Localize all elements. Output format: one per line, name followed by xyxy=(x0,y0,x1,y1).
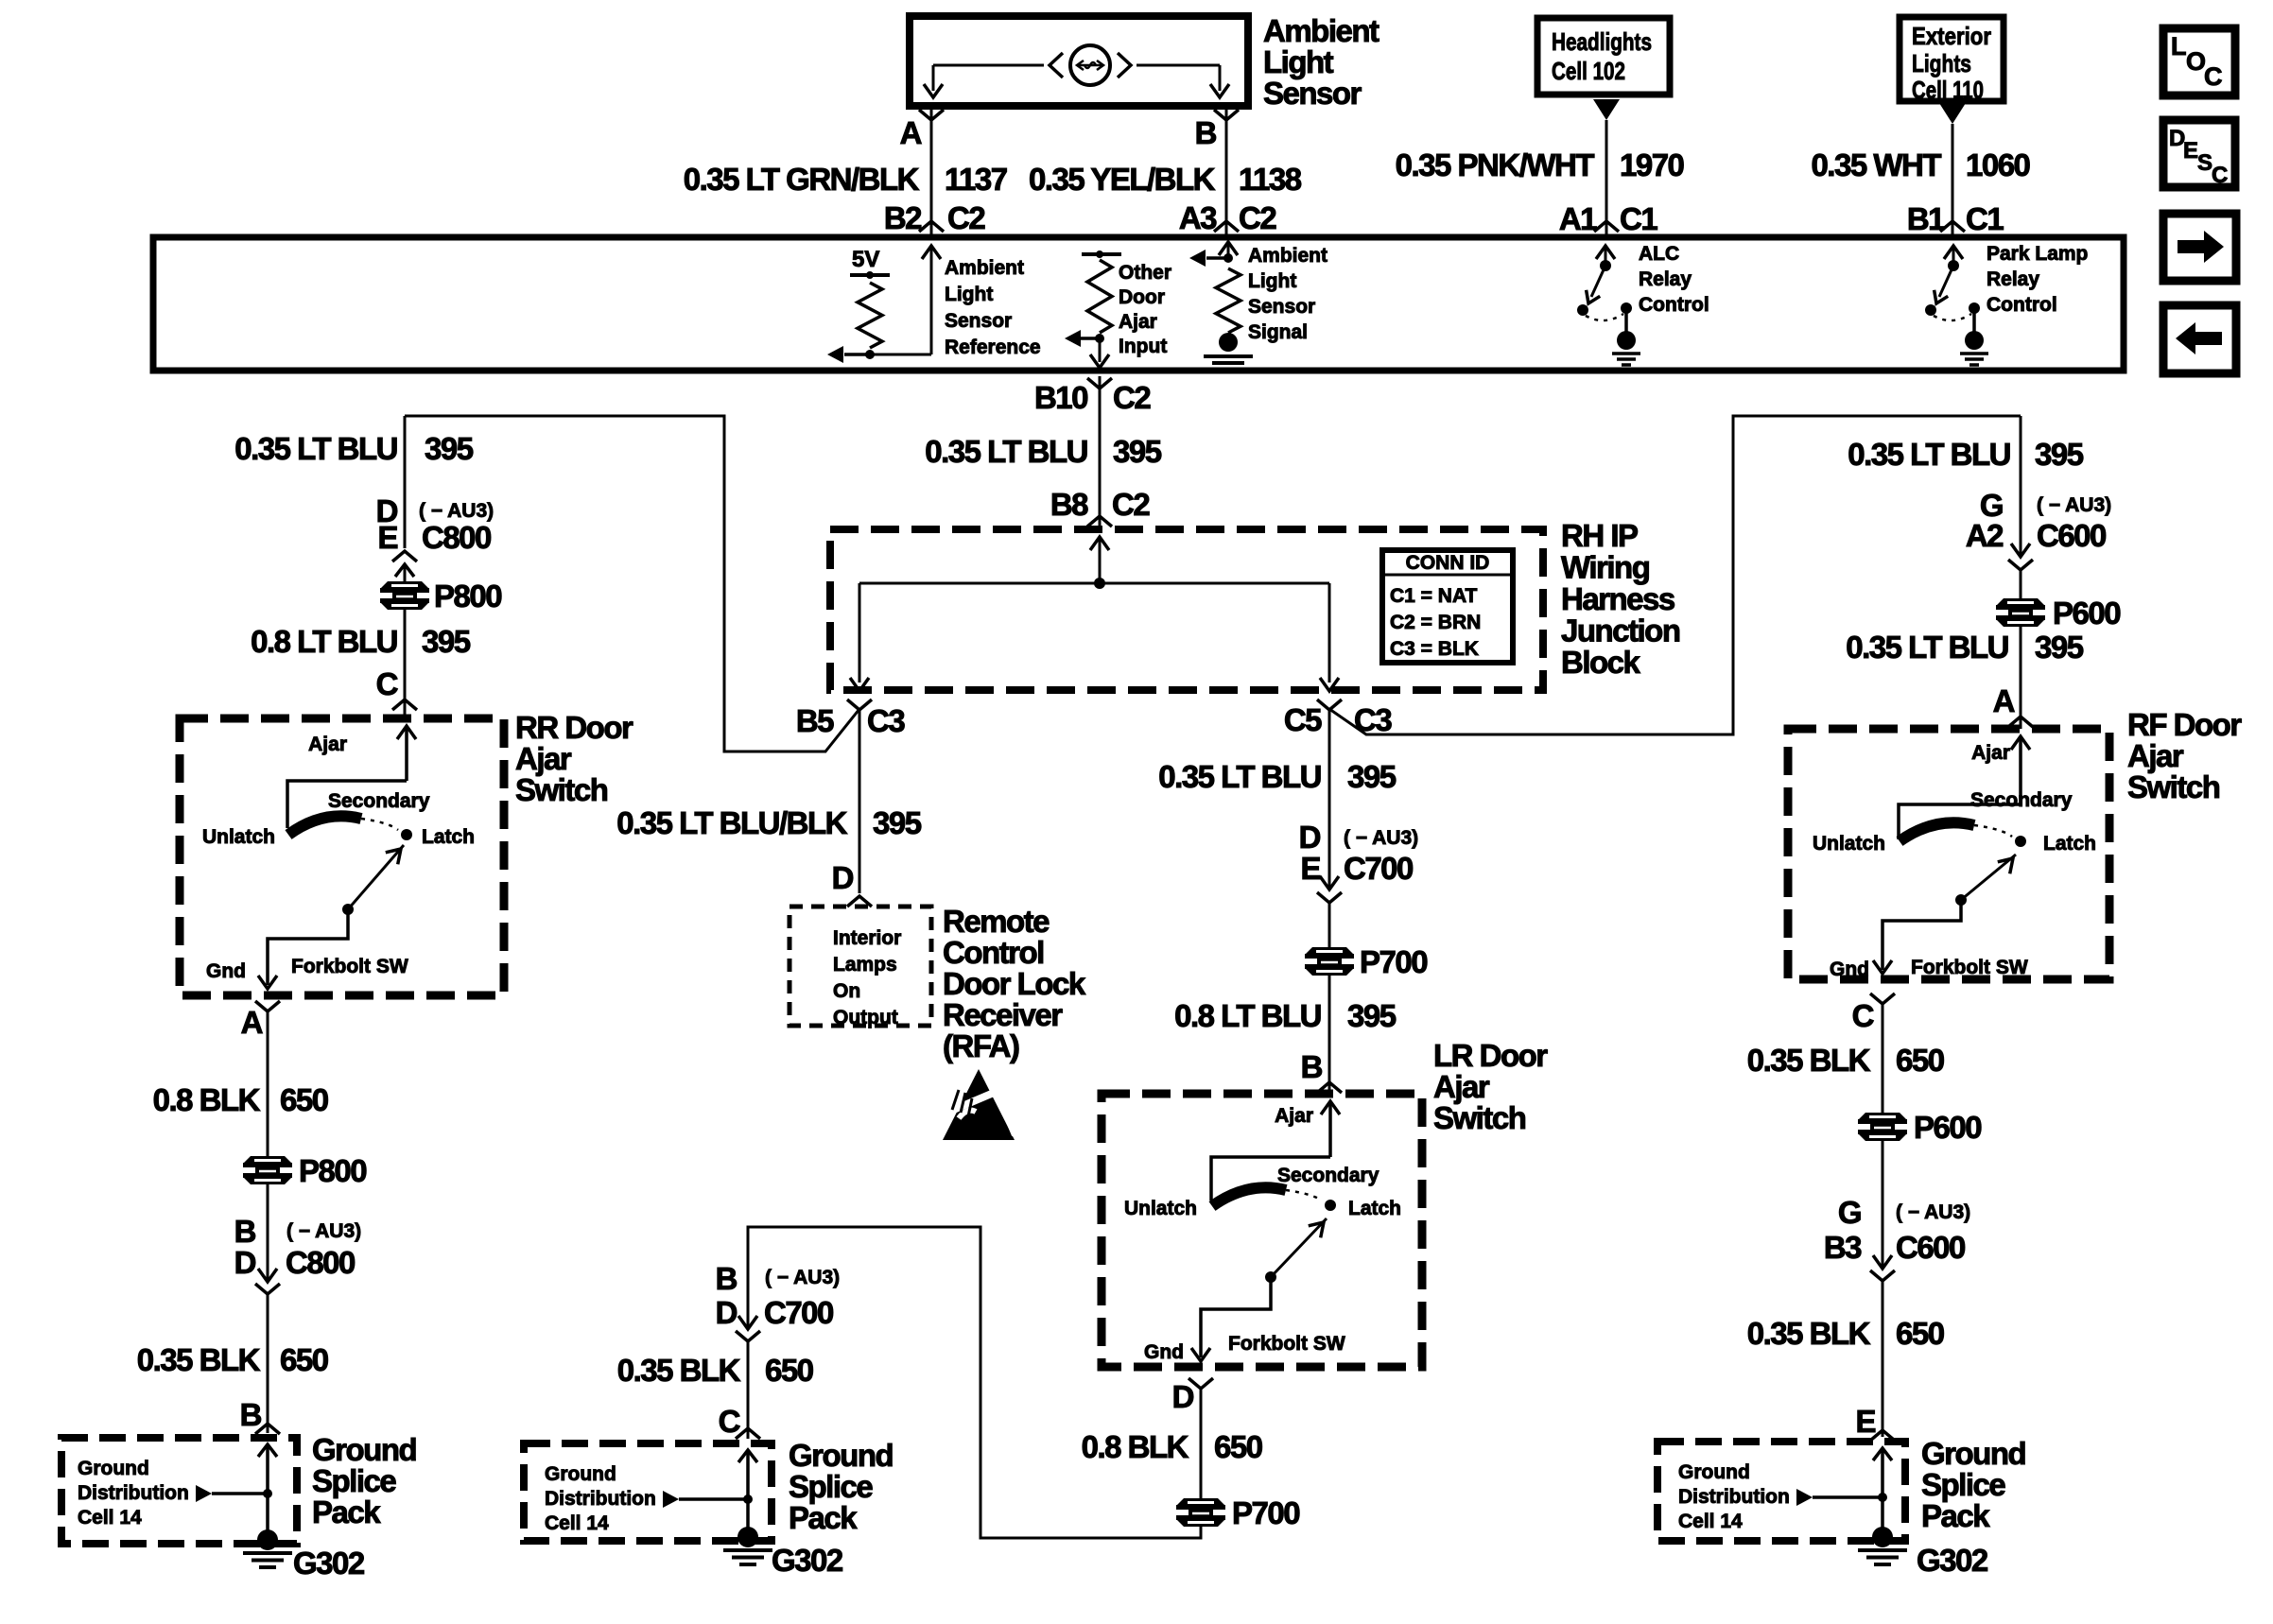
svg-text:RR Door: RR Door xyxy=(515,710,633,745)
svg-text:Relay: Relay xyxy=(1987,268,2039,290)
svg-text:Secondary: Secondary xyxy=(1970,789,2073,811)
svg-text:B: B xyxy=(1301,1049,1323,1084)
connector fork at BCM B1 xyxy=(1940,221,1965,232)
svg-text:A: A xyxy=(241,1005,263,1040)
right splice node xyxy=(1878,1493,1887,1502)
svg-text:B3: B3 xyxy=(1824,1230,1862,1265)
svg-text:G302: G302 xyxy=(1917,1543,1988,1578)
svg-text:1060: 1060 xyxy=(1966,147,2030,182)
svg-text:395: 395 xyxy=(873,805,922,840)
wire 1138 xyxy=(1225,106,1228,237)
grommet P800 xyxy=(381,581,428,588)
svg-text:RH IP: RH IP xyxy=(1561,518,1638,553)
LOC reference box xyxy=(2163,28,2235,95)
svg-text:0.35 LT GRN/BLK: 0.35 LT GRN/BLK xyxy=(684,162,920,197)
svg-text:0.8 BLK: 0.8 BLK xyxy=(153,1082,261,1117)
body control module box xyxy=(153,237,2124,371)
wire B8 into junction block with arrow xyxy=(1090,537,1109,550)
LR secondary contact arm (thick arc) xyxy=(1212,1187,1286,1206)
svg-text:0.35 BLK: 0.35 BLK xyxy=(1747,1316,1871,1351)
svg-text:C5: C5 xyxy=(1284,702,1322,737)
connector fork below RF door xyxy=(1870,993,1895,1004)
svg-text:C: C xyxy=(2204,62,2223,91)
connector fork at sensor pin B xyxy=(1214,110,1239,120)
svg-text:Relay: Relay xyxy=(1639,268,1692,290)
svg-text:Unlatch: Unlatch xyxy=(1813,833,1885,855)
svg-text:Unlatch: Unlatch xyxy=(1124,1198,1197,1219)
svg-text:650: 650 xyxy=(1214,1429,1262,1464)
svg-text:Pack: Pack xyxy=(312,1494,381,1529)
svg-text:C700: C700 xyxy=(1344,851,1413,886)
svg-text:LR Door: LR Door xyxy=(1433,1038,1548,1073)
arrow to internal circuit (signal) xyxy=(1206,256,1228,260)
svg-text:0.35 BLK: 0.35 BLK xyxy=(617,1353,741,1388)
svg-text:RF Door: RF Door xyxy=(2127,707,2242,742)
RR travel arc to latch xyxy=(361,819,398,830)
svg-text:0.35 LT BLU: 0.35 LT BLU xyxy=(1846,630,2008,665)
left wire into pack with arrow xyxy=(258,1444,277,1457)
next page arrow box xyxy=(2163,214,2236,281)
resistor R3 (ambient light sensor signal) xyxy=(1216,268,1241,333)
grommet P700 xyxy=(1306,947,1353,954)
svg-text:Secondary: Secondary xyxy=(1277,1165,1379,1186)
svg-text:A: A xyxy=(1993,683,2015,718)
svg-text:L: L xyxy=(2171,32,2187,60)
left splice node xyxy=(263,1489,272,1498)
svg-text:Input: Input xyxy=(1119,336,1167,357)
wire to 5V resistor xyxy=(870,354,931,356)
svg-text:A2: A2 xyxy=(1966,518,2004,553)
connector fork at BCM A3 xyxy=(1214,221,1239,232)
svg-text:E: E xyxy=(2183,138,2198,164)
right wire into pack with arrow xyxy=(1873,1448,1892,1460)
RF latch contact xyxy=(2015,836,2026,847)
wire 395 to RF door xyxy=(2020,416,2022,557)
svg-text:Gnd: Gnd xyxy=(206,960,246,982)
connector fork at splice pack xyxy=(736,1428,760,1439)
svg-text:C2 = BRN: C2 = BRN xyxy=(1390,612,1481,633)
svg-text:Pack: Pack xyxy=(789,1500,858,1535)
RF secondary contact arm (thick arc) xyxy=(1900,822,1974,841)
svg-text:395: 395 xyxy=(2035,630,2084,665)
svg-text:C600: C600 xyxy=(2037,518,2106,553)
svg-text:Light: Light xyxy=(945,284,993,305)
svg-text:Cell 110: Cell 110 xyxy=(1912,76,1984,104)
svg-text:0.35 BLK: 0.35 BLK xyxy=(137,1342,261,1377)
wire 0.35 BLK 650 xyxy=(1882,1004,1884,1115)
exterior lights cell 110 box xyxy=(1900,17,2004,101)
svg-text:395: 395 xyxy=(1347,759,1397,794)
park lamp relay contact to ground xyxy=(1972,308,1976,333)
internal wire to B5 with arrow xyxy=(859,583,861,682)
svg-text:P600: P600 xyxy=(1914,1110,1981,1145)
headlights cell 102 box xyxy=(1537,18,1670,95)
DESC reference box xyxy=(2163,120,2235,187)
svg-text:Ajar: Ajar xyxy=(515,741,572,776)
svg-text:Sensor: Sensor xyxy=(1263,76,1362,111)
wire 0.8 LT BLU xyxy=(1328,973,1331,1094)
wire branch C5 to RF door chain xyxy=(1329,416,2021,734)
wire 0.35 BLK 650 lower xyxy=(1882,1281,1884,1437)
svg-text:Control: Control xyxy=(1639,294,1709,316)
node below resistor R2 xyxy=(1095,334,1104,343)
svg-text:5V: 5V xyxy=(852,247,879,272)
svg-text:B1: B1 xyxy=(1907,201,1945,236)
wire routing from P700 to C700 xyxy=(748,1227,1201,1538)
connector fork at RF door A xyxy=(2008,717,2033,727)
svg-text:G302: G302 xyxy=(293,1546,365,1581)
svg-text:Ambient: Ambient xyxy=(1263,13,1379,48)
svg-text:C3 = BLK: C3 = BLK xyxy=(1390,638,1479,660)
svg-text:E: E xyxy=(1300,851,1320,886)
svg-text:C: C xyxy=(2212,163,2228,188)
svg-text:0.8 LT BLU: 0.8 LT BLU xyxy=(1174,998,1321,1033)
svg-text:0.8 BLK: 0.8 BLK xyxy=(1082,1429,1189,1464)
RR gnd wire jog xyxy=(268,909,348,985)
svg-text:1970: 1970 xyxy=(1620,147,1684,182)
svg-text:( − AU3): ( − AU3) xyxy=(1344,827,1418,849)
LR gnd wire jog xyxy=(1201,1277,1271,1357)
svg-text:Sensor: Sensor xyxy=(1248,296,1315,318)
LR travel arc to latch xyxy=(1286,1190,1322,1201)
wire 0.35 BLK 650 xyxy=(267,1294,269,1433)
svg-text:D: D xyxy=(832,860,854,895)
svg-text:C3: C3 xyxy=(867,703,905,738)
connector fork below RR door xyxy=(255,1001,280,1011)
ambient light sensor photocell symbol xyxy=(933,45,1220,85)
svg-text:Secondary: Secondary xyxy=(328,790,430,812)
svg-text:B10: B10 xyxy=(1034,380,1087,415)
svg-text:Interior: Interior xyxy=(833,927,901,949)
RR gnd exit arrow xyxy=(258,976,277,989)
grommet P800 (lower) xyxy=(244,1156,291,1163)
svg-text:B: B xyxy=(716,1261,737,1296)
svg-text:650: 650 xyxy=(1896,1043,1944,1078)
center ground distribution branch arrow xyxy=(663,1491,679,1508)
other door ajar pull-up bar xyxy=(1082,252,1121,256)
svg-text:P700: P700 xyxy=(1232,1495,1299,1530)
svg-text:Reference: Reference xyxy=(945,337,1041,358)
svg-text:0.35 LT BLU: 0.35 LT BLU xyxy=(234,431,397,466)
svg-text:B: B xyxy=(240,1397,262,1432)
wire E to P700 xyxy=(1328,903,1331,950)
connector fork at RFA D xyxy=(847,896,872,907)
svg-text:0.35 LT BLU: 0.35 LT BLU xyxy=(1158,759,1321,794)
grommet P700 (lower) xyxy=(1177,1498,1224,1505)
svg-text:Distribution: Distribution xyxy=(545,1488,656,1510)
svg-text:Latch: Latch xyxy=(2043,833,2096,855)
svg-text:0.35 WHT: 0.35 WHT xyxy=(1811,147,1941,182)
svg-text:Ground: Ground xyxy=(545,1463,616,1485)
wire to C600 xyxy=(1882,1138,1884,1267)
svg-text:P600: P600 xyxy=(2053,596,2120,631)
svg-text:D: D xyxy=(1172,1379,1194,1414)
svg-text:Ground: Ground xyxy=(1678,1461,1750,1483)
svg-text:On: On xyxy=(833,980,860,1002)
svg-text:1138: 1138 xyxy=(1239,162,1302,197)
svg-text:( − AU3): ( − AU3) xyxy=(419,500,494,522)
internal wire to C5 with arrow xyxy=(1328,583,1331,682)
svg-text:P700: P700 xyxy=(1360,944,1427,979)
svg-text:Ambient: Ambient xyxy=(1248,245,1327,267)
svg-text:G302: G302 xyxy=(772,1543,843,1578)
RR door ajar switch box xyxy=(180,718,504,995)
connector fork at splice pack xyxy=(255,1424,280,1434)
RF travel arc to latch xyxy=(1974,825,2012,837)
svg-text:S: S xyxy=(2197,150,2212,176)
ALC relay switch arm xyxy=(1591,266,1605,297)
svg-text:P800: P800 xyxy=(434,579,501,613)
svg-text:C3: C3 xyxy=(1354,702,1392,737)
internal ground for park lamp relay xyxy=(1965,331,1984,350)
svg-text:Output: Output xyxy=(833,1007,898,1028)
wire to C800 xyxy=(267,1182,269,1282)
wire B5 to RFA receiver xyxy=(859,709,861,893)
wire 0.8 LT BLU xyxy=(404,607,407,718)
LR latch contact xyxy=(1325,1200,1336,1211)
svg-text:Control: Control xyxy=(943,935,1044,970)
wire A3 into BCM with arrow xyxy=(1219,242,1238,255)
svg-text:0.35 YEL/BLK: 0.35 YEL/BLK xyxy=(1029,162,1216,197)
svg-text:0.35 LT BLU: 0.35 LT BLU xyxy=(1848,437,2010,472)
svg-text:C1: C1 xyxy=(1620,201,1657,236)
ambient light sensor U1 box xyxy=(910,16,1248,106)
center splice node xyxy=(743,1494,753,1504)
connector C700 forks (down) xyxy=(738,1316,757,1329)
wire 1137 xyxy=(930,106,933,237)
svg-text:Ground: Ground xyxy=(312,1432,416,1467)
grommet P600 xyxy=(1997,598,2044,605)
wire branch B5 to RR door chain xyxy=(405,416,859,752)
wire 1970 xyxy=(1605,120,1608,237)
RF forkbolt pivot xyxy=(1955,894,1967,906)
svg-text:Ambient: Ambient xyxy=(945,257,1024,279)
svg-text:650: 650 xyxy=(1896,1316,1944,1351)
svg-text:C2: C2 xyxy=(1113,380,1151,415)
svg-text:0.35 LT BLU: 0.35 LT BLU xyxy=(925,434,1087,469)
svg-text:P800: P800 xyxy=(299,1153,366,1188)
svg-text:G: G xyxy=(1838,1195,1861,1230)
svg-text:0.35 LT BLU/BLK: 0.35 LT BLU/BLK xyxy=(616,805,847,840)
connector fork at BCM B2 xyxy=(919,221,944,232)
wire E to P800 xyxy=(404,564,407,584)
wire B2 into BCM with arrow xyxy=(922,246,941,259)
wire 0.35 LT BLU xyxy=(2020,624,2022,729)
right ground distribution branch arrow xyxy=(1796,1489,1813,1506)
left ground splice pack box xyxy=(61,1438,297,1544)
svg-text:0.35 PNK/WHT: 0.35 PNK/WHT xyxy=(1396,147,1595,182)
svg-text:Distribution: Distribution xyxy=(1678,1486,1790,1508)
connector fork at C5 xyxy=(1317,700,1342,710)
svg-text:Lamps: Lamps xyxy=(833,954,897,976)
RR forkbolt pivot xyxy=(342,904,354,915)
connector C800 forks (down) xyxy=(258,1269,277,1282)
ALC relay contact xyxy=(1621,302,1632,314)
ALC relay travel arc xyxy=(1586,314,1623,320)
svg-text:A: A xyxy=(900,115,922,150)
svg-text:Latch: Latch xyxy=(1348,1198,1401,1219)
svg-text:Pack: Pack xyxy=(1921,1498,1990,1533)
triangle arrow from headlights box xyxy=(1593,99,1620,120)
svg-text:Gnd: Gnd xyxy=(1144,1341,1184,1363)
svg-text:Ajar: Ajar xyxy=(1971,742,2010,764)
svg-text:Ground: Ground xyxy=(789,1438,893,1473)
svg-text:A1: A1 xyxy=(1559,201,1597,236)
svg-text:C2: C2 xyxy=(1239,200,1276,235)
connector fork at BCM B10 xyxy=(1087,378,1112,389)
svg-text:B5: B5 xyxy=(796,703,834,738)
svg-text:650: 650 xyxy=(280,1082,328,1117)
svg-text:1137: 1137 xyxy=(945,162,1007,197)
connector C600 forks (down) xyxy=(2011,544,2030,557)
LR forkbolt switch arm xyxy=(1271,1218,1327,1277)
wire 0.8 BLK 650 xyxy=(267,1011,269,1159)
svg-text:Park Lamp: Park Lamp xyxy=(1987,243,2088,265)
connector C600 forks (down) xyxy=(1873,1255,1892,1269)
park lamp relay contact xyxy=(1969,302,1980,314)
left ground G302 xyxy=(257,1529,278,1550)
svg-text:B8: B8 xyxy=(1050,487,1088,522)
wire to B10 with arrow xyxy=(1099,338,1102,362)
LR gnd exit arrow xyxy=(1191,1348,1210,1361)
resistor R1 (ambient light sensor reference pull-up) xyxy=(858,283,882,348)
svg-text:Light: Light xyxy=(1263,44,1334,79)
svg-text:C800: C800 xyxy=(422,520,491,555)
svg-text:Other: Other xyxy=(1119,262,1171,284)
center ground G302 xyxy=(737,1527,758,1547)
RF gnd wire jog xyxy=(1883,900,1961,970)
park lamp relay switch arm xyxy=(1939,266,1953,297)
svg-text:Ground: Ground xyxy=(1921,1436,2025,1471)
svg-text:Remote: Remote xyxy=(943,904,1050,939)
RR forkbolt switch arm xyxy=(348,845,404,909)
svg-text:Signal: Signal xyxy=(1248,321,1308,343)
svg-text:Ajar: Ajar xyxy=(1275,1105,1313,1127)
svg-text:Ajar: Ajar xyxy=(308,734,347,755)
connector C800 forks xyxy=(392,551,417,561)
internal ground for R3 xyxy=(1219,333,1238,352)
svg-text:Control: Control xyxy=(1987,294,2057,316)
svg-text:( − AU3): ( − AU3) xyxy=(1896,1201,1970,1223)
wire 395 to RR door xyxy=(404,416,407,548)
svg-text:Distribution: Distribution xyxy=(78,1482,189,1504)
park lamp relay switch pivot xyxy=(1925,304,1936,316)
svg-text:C1 = NAT: C1 = NAT xyxy=(1390,585,1478,607)
svg-text:395: 395 xyxy=(425,431,474,466)
connector fork at splice pack xyxy=(1870,1430,1895,1441)
RFA interior lamps on output box (dashed) xyxy=(789,907,931,1026)
svg-text:Junction: Junction xyxy=(1561,613,1680,648)
svg-text:Cell 102: Cell 102 xyxy=(1552,57,1625,85)
svg-text:Splice: Splice xyxy=(312,1463,396,1498)
svg-text:Ajar: Ajar xyxy=(2127,738,2184,773)
svg-text:Exterior: Exterior xyxy=(1912,22,1991,50)
node at signal resistor top xyxy=(1223,253,1233,263)
RR latch contact xyxy=(401,829,412,840)
svg-text:Cell 14: Cell 14 xyxy=(545,1512,609,1534)
svg-text:Lights: Lights xyxy=(1912,49,1971,78)
svg-text:Switch: Switch xyxy=(1433,1100,1526,1135)
connector fork at junction block B8 xyxy=(1087,516,1112,527)
RF forkbolt switch arm xyxy=(1961,855,2016,900)
wire 0.8 BLK 650 xyxy=(1200,1389,1203,1501)
RR secondary contact arm (thick arc) xyxy=(288,816,361,835)
wire 395 from B10 xyxy=(1099,376,1102,529)
LR ajar input arrow xyxy=(1321,1101,1340,1114)
right ground splice pack box xyxy=(1657,1442,1905,1541)
wire 0.35 BLK 650 xyxy=(747,1341,750,1439)
svg-text:B: B xyxy=(1195,115,1217,150)
svg-text:B: B xyxy=(234,1214,256,1249)
svg-text:C: C xyxy=(719,1404,740,1439)
svg-text:Wiring: Wiring xyxy=(1561,550,1649,585)
RH IP wiring harness junction block (dashed) xyxy=(830,529,1543,690)
svg-text:Unlatch: Unlatch xyxy=(202,826,275,848)
svg-text:(RFA): (RFA) xyxy=(943,1028,1019,1063)
svg-text:B2: B2 xyxy=(884,200,922,235)
svg-text:Door Lock: Door Lock xyxy=(943,966,1086,1001)
LR door ajar switch box xyxy=(1102,1094,1422,1367)
svg-text:Switch: Switch xyxy=(515,772,608,807)
svg-text:0.8 LT BLU: 0.8 LT BLU xyxy=(251,624,397,659)
ALC relay contact to ground xyxy=(1624,308,1628,333)
5V supply bar xyxy=(850,273,890,277)
node at resistor bottom xyxy=(865,350,875,359)
svg-text:650: 650 xyxy=(765,1353,813,1388)
svg-text:Sensor: Sensor xyxy=(945,310,1012,332)
svg-text:0.35 BLK: 0.35 BLK xyxy=(1747,1043,1871,1078)
connector fork at B5 xyxy=(847,700,872,710)
junction block internal bus xyxy=(859,582,1329,585)
svg-text:Ajar: Ajar xyxy=(1433,1069,1490,1104)
svg-text:Forkbolt SW: Forkbolt SW xyxy=(1911,957,2028,978)
wire C5 to LR door xyxy=(1328,709,1331,890)
wire 1060 xyxy=(1952,124,1954,237)
svg-text:Ajar: Ajar xyxy=(1119,311,1157,333)
svg-text:395: 395 xyxy=(1347,998,1397,1033)
ALC relay switch common node xyxy=(1600,260,1611,271)
left ground distribution branch arrow xyxy=(196,1485,212,1502)
ESD sensitive device symbol xyxy=(943,1069,1015,1140)
svg-text:CONN ID: CONN ID xyxy=(1406,552,1490,574)
LR forkbolt pivot xyxy=(1265,1271,1276,1283)
RR ajar input arrow xyxy=(397,726,416,739)
node junction of B8/B5/C5 xyxy=(1094,578,1105,589)
svg-text:Cell 14: Cell 14 xyxy=(1678,1511,1743,1532)
RF ajar input arrow xyxy=(2011,736,2030,750)
svg-text:Headlights: Headlights xyxy=(1552,27,1652,56)
svg-text:( − AU3): ( − AU3) xyxy=(765,1267,840,1288)
RF gnd exit arrow xyxy=(1873,960,1892,974)
sensor internal wire to pin B xyxy=(1219,65,1222,91)
svg-text:395: 395 xyxy=(422,624,471,659)
svg-text:Block: Block xyxy=(1561,645,1641,680)
svg-text:D: D xyxy=(716,1295,737,1330)
previous page arrow box xyxy=(2163,305,2236,373)
svg-text:C2: C2 xyxy=(947,200,985,235)
right ground G302 xyxy=(1872,1527,1893,1547)
svg-text:C800: C800 xyxy=(286,1245,355,1280)
svg-text:650: 650 xyxy=(280,1342,328,1377)
svg-text:Harness: Harness xyxy=(1561,581,1674,616)
svg-text:C700: C700 xyxy=(764,1295,833,1330)
svg-text:Ground: Ground xyxy=(78,1458,149,1479)
svg-text:C: C xyxy=(1852,998,1874,1033)
svg-text:C600: C600 xyxy=(1896,1230,1965,1265)
connector fork at BCM A1 xyxy=(1594,221,1619,232)
svg-text:Receiver: Receiver xyxy=(943,997,1063,1032)
svg-text:Light: Light xyxy=(1248,270,1296,292)
